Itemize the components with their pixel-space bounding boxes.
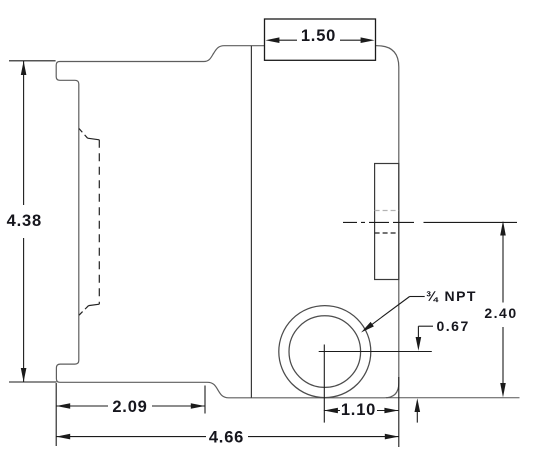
svg-text:1.10: 1.10 xyxy=(341,401,376,419)
hidden line upper (light) xyxy=(375,210,399,212)
dimension 0.67 xyxy=(418,325,433,327)
NPT hole circles xyxy=(279,306,371,398)
svg-text:4.38: 4.38 xyxy=(7,212,42,230)
dimension 1.50 white box xyxy=(265,19,376,60)
svg-text:1.50: 1.50 xyxy=(301,27,336,45)
bottom edge extension to the right xyxy=(386,397,520,399)
dash-dot centerline of side port xyxy=(343,221,414,223)
main body left edge xyxy=(250,46,252,398)
hole crosshair xyxy=(319,351,432,353)
side port rectangle xyxy=(375,164,399,280)
hidden bore (dashed) on flange xyxy=(79,129,88,139)
dimension 2.40 xyxy=(502,233,504,303)
svg-text:0.67: 0.67 xyxy=(437,318,470,334)
part outline (side view profile) xyxy=(56,46,399,398)
svg-text:2.40: 2.40 xyxy=(484,305,517,321)
dimension 4.38 xyxy=(9,60,56,62)
dimension 1.10 xyxy=(324,410,340,412)
dimension 4.66 xyxy=(55,383,57,446)
hidden line lower xyxy=(375,232,399,234)
svg-text:4.66: 4.66 xyxy=(209,429,244,447)
svg-text:2.09: 2.09 xyxy=(112,398,147,416)
svg-text:¾ NPT: ¾ NPT xyxy=(426,288,477,304)
dimension 2.09 xyxy=(204,386,206,414)
